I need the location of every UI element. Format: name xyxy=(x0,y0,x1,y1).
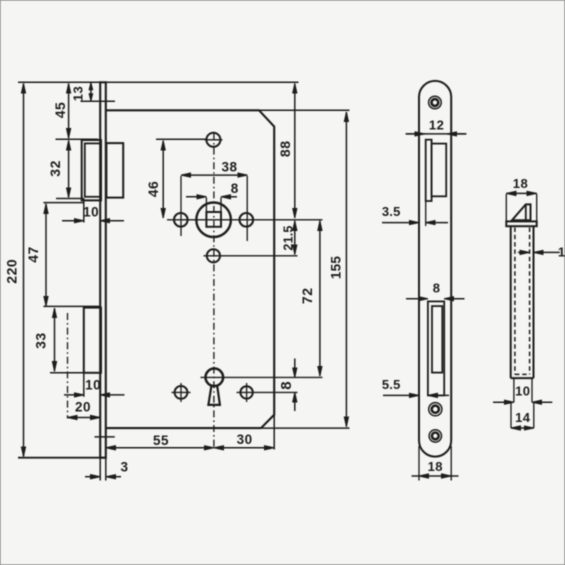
svg-text:21.5: 21.5 xyxy=(282,225,296,250)
dimension 3 left arrow xyxy=(85,476,100,478)
46 top extension line xyxy=(156,138,206,140)
dimension 10 upper right arrow xyxy=(100,220,124,222)
dimension 14 box extensions xyxy=(510,402,512,428)
dimension 5.5 right arrow xyxy=(428,394,449,396)
lower hole right axis line xyxy=(237,391,298,393)
bottom screw hole upper inner xyxy=(432,406,439,413)
svg-text:5.5: 5.5 xyxy=(382,377,401,392)
faceplate top tick at 13 dim xyxy=(81,100,116,102)
case bottom extension to 155 dim xyxy=(261,427,350,429)
dimension 12 right arrowhead xyxy=(447,133,465,135)
svg-text:12: 12 xyxy=(429,117,444,132)
latch cutout strip xyxy=(426,140,432,201)
svg-text:1: 1 xyxy=(558,245,565,260)
faceplate bottom extension line xyxy=(18,457,106,459)
svg-text:3.5: 3.5 xyxy=(382,204,401,219)
latch bolt inner part xyxy=(106,143,123,198)
svg-text:33: 33 xyxy=(32,332,48,349)
dimension 18 bottom line xyxy=(419,475,451,477)
dimension 220 line xyxy=(23,84,25,457)
dimension 18 top extensions xyxy=(505,194,507,221)
case side view bottom edge xyxy=(511,377,534,379)
dimension 8 top extensions xyxy=(205,198,207,212)
top screw hole outer xyxy=(429,96,442,109)
top screw hole inner xyxy=(432,99,439,106)
dimension 13 bottom arrowhead xyxy=(89,94,93,101)
deadbolt cutout xyxy=(428,301,444,395)
svg-text:30: 30 xyxy=(237,432,253,447)
dimension 32 line xyxy=(68,141,70,198)
deadbolt protruding part xyxy=(84,308,101,373)
spindle follower circle xyxy=(196,203,231,238)
latch cutout extension for 3.5 xyxy=(425,201,427,226)
deadbolt thrown face dash-dot line xyxy=(67,313,69,419)
deadbolt top extension line xyxy=(43,305,101,307)
case side view hidden right line xyxy=(529,228,531,375)
fixing hole below spindle xyxy=(207,249,220,262)
47 top extension line xyxy=(43,202,84,204)
dimension 20 line xyxy=(68,417,101,419)
dimension 45 line xyxy=(68,84,70,139)
svg-text:38: 38 xyxy=(221,159,237,174)
handle hole left vertical extension xyxy=(180,176,182,236)
dimension 8 top left arrow xyxy=(186,196,206,198)
handle hole right vertical extension xyxy=(246,176,248,241)
svg-text:72: 72 xyxy=(299,288,315,305)
lower hole left axis tick xyxy=(172,391,191,393)
dimension 8 top right arrow xyxy=(221,196,237,198)
dimension 30 line xyxy=(214,447,274,449)
svg-text:8: 8 xyxy=(433,281,441,296)
case top extension line to 155 dim xyxy=(259,109,350,111)
faceplate side extensions for 18 dim xyxy=(418,446,420,481)
svg-text:13: 13 xyxy=(71,86,86,101)
dimension 72 line xyxy=(319,221,321,376)
dimension 18 top line xyxy=(506,192,536,194)
dimension 38 line xyxy=(181,174,247,176)
faceplate edge extensions below for 3 dim xyxy=(99,458,101,481)
svg-text:45: 45 xyxy=(52,102,68,119)
dimension 1 left arrow xyxy=(518,251,530,253)
svg-text:3: 3 xyxy=(120,459,128,474)
dimension 21.5 line xyxy=(294,221,296,255)
keyhole row axis line xyxy=(201,376,323,378)
dimension 55 line xyxy=(106,447,214,449)
dimension 155 line xyxy=(345,112,347,427)
lower fixing hole left xyxy=(175,386,188,399)
lower left hole vertical tick xyxy=(180,383,182,402)
svg-text:14: 14 xyxy=(515,410,531,425)
dimension 3 right arrow xyxy=(106,476,121,478)
dimension 13 line xyxy=(90,83,92,101)
deadbolt in cutout xyxy=(432,306,442,373)
lock case outline with chamfered right corners xyxy=(106,110,274,428)
svg-text:10: 10 xyxy=(83,204,99,219)
case side view hidden left line xyxy=(514,228,516,375)
faceplate cross tick near case bottom xyxy=(95,436,115,438)
svg-text:32: 32 xyxy=(47,160,63,177)
hole below spindle axis line xyxy=(204,255,298,257)
keyhole circle xyxy=(206,369,224,387)
faceplate edge-on collar bar xyxy=(506,221,536,226)
dimension 10 upper left arrow xyxy=(62,220,84,222)
dimension 1 right arrow xyxy=(534,251,560,253)
lower right hole vertical tick xyxy=(246,383,248,402)
vertical dash-dot centerline xyxy=(213,133,215,450)
bottom screw hole lower inner xyxy=(432,433,439,440)
45 bottom extension line xyxy=(56,138,99,140)
svg-text:20: 20 xyxy=(75,399,91,414)
faceplate outline rounded ends xyxy=(419,81,451,457)
svg-text:55: 55 xyxy=(153,433,169,448)
dimension 8 mid right arrow xyxy=(444,298,464,300)
svg-text:47: 47 xyxy=(25,246,41,263)
svg-text:10: 10 xyxy=(85,378,101,393)
deadbolt face extension for lower 10 dim xyxy=(83,373,85,397)
dimension 10 right right arrow xyxy=(532,401,552,403)
latch bottom extension line xyxy=(56,198,84,200)
top fixing hole xyxy=(206,133,220,147)
latch head back line xyxy=(525,204,527,220)
spindle square hole xyxy=(206,212,221,227)
dimension 12 line xyxy=(406,133,467,135)
dimension 14 line xyxy=(511,427,534,429)
handle fixing hole right xyxy=(240,213,254,227)
latch head bevel side view xyxy=(512,204,531,220)
top hole horizontal tick xyxy=(205,139,223,141)
svg-text:18: 18 xyxy=(428,459,443,474)
dimension 10 lower left arrow xyxy=(64,394,84,396)
dimension 8 right top arrow xyxy=(294,359,296,378)
svg-text:46: 46 xyxy=(145,181,161,198)
top extension line at faceplate top xyxy=(18,81,299,83)
svg-text:18: 18 xyxy=(513,176,528,191)
dimension 33 line xyxy=(54,308,56,371)
lower fixing hole right xyxy=(240,386,252,398)
latch face extension for upper 10 dim xyxy=(83,199,85,223)
svg-text:88: 88 xyxy=(277,141,293,158)
case right edge extension for 30 dim xyxy=(273,415,275,450)
case side view left edge xyxy=(510,226,512,378)
case side view right edge xyxy=(533,226,535,378)
dimension 8 right bottom arrow xyxy=(294,392,296,411)
dimension 12 left arrowhead xyxy=(407,133,425,135)
svg-text:10: 10 xyxy=(515,384,530,399)
dimension 10 lower right arrow xyxy=(100,394,124,396)
dimension 3.5 left arrow xyxy=(382,222,419,224)
faceplate strip front view xyxy=(100,82,106,457)
dimension 18 bottom tails xyxy=(412,475,420,477)
latch bolt head face xyxy=(85,143,101,196)
handle fixing hole left xyxy=(174,213,188,227)
dimension 88 line xyxy=(294,84,296,219)
dimension 10 box extensions xyxy=(513,378,515,402)
bottom screw hole lower outer xyxy=(429,430,441,442)
latch bolt in cutout xyxy=(432,144,447,197)
svg-text:8: 8 xyxy=(231,181,239,196)
svg-text:155: 155 xyxy=(328,256,343,279)
dimension 10 right left arrow xyxy=(493,401,514,403)
deadbolt bottom extension line xyxy=(50,372,84,374)
svg-text:220: 220 xyxy=(4,259,20,284)
svg-text:8: 8 xyxy=(278,381,295,390)
dimension 8 mid left arrow xyxy=(406,298,428,300)
latch bolt head outer xyxy=(82,140,101,200)
keyhole stem xyxy=(208,386,220,405)
case side view hidden bottom line xyxy=(515,373,530,375)
handle row axis line xyxy=(167,219,323,221)
dimension 46 line xyxy=(162,141,164,218)
dimension 13 top arrowhead xyxy=(89,83,93,90)
bottom screw hole upper outer xyxy=(429,403,442,416)
dimension 5.5 left arrow xyxy=(383,394,419,396)
dimension 47 line xyxy=(45,204,47,306)
dimension 3.5 right arrow xyxy=(426,222,448,224)
